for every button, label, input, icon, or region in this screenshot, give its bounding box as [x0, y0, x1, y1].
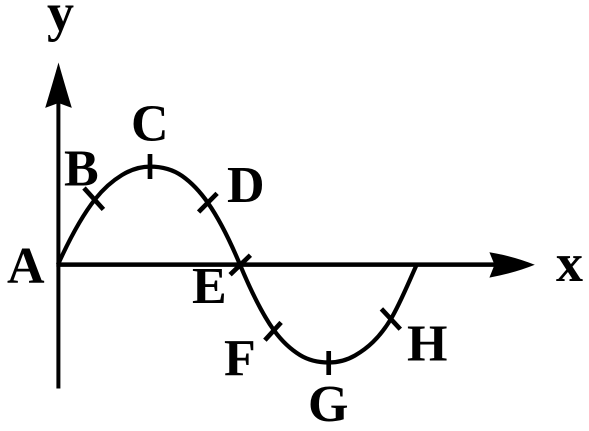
tick C — [148, 154, 153, 179]
sine curve — [58, 167, 417, 363]
svg-text:y: y — [47, 0, 74, 43]
svg-text:H: H — [407, 316, 447, 373]
svg-text:D: D — [227, 157, 265, 214]
tick G — [326, 351, 331, 375]
svg-text:B: B — [64, 141, 99, 198]
x-axis — [56, 252, 534, 277]
svg-text:x: x — [556, 233, 583, 293]
tick E — [230, 255, 250, 275]
tick H — [381, 309, 400, 329]
tick B — [84, 188, 103, 209]
tick D — [199, 193, 218, 212]
y-axis — [45, 63, 72, 389]
svg-text:E: E — [192, 258, 227, 315]
tick F — [265, 322, 281, 340]
svg-text:A: A — [7, 238, 45, 295]
svg-text:F: F — [224, 330, 256, 387]
svg-text:C: C — [131, 96, 169, 153]
svg-text:G: G — [308, 376, 348, 431]
